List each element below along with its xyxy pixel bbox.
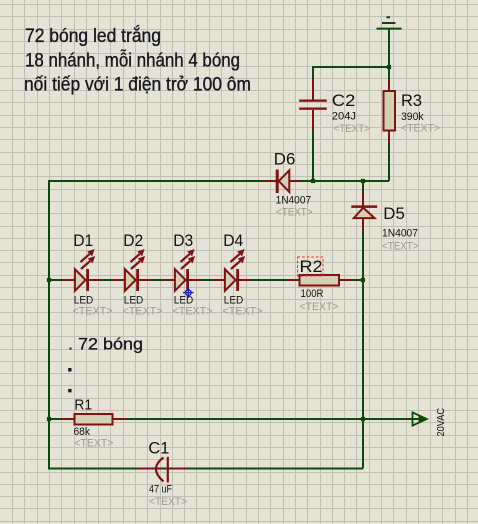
wire mid rail [49,180,389,182]
svg-text:R2: R2 [300,257,323,276]
LED D3 [163,231,213,318]
svg-text:204J: 204J [332,110,356,122]
junction C2 / mid rail [311,179,315,183]
capacitor C1 [138,439,189,509]
svg-text:<TEXT>: <TEXT> [123,306,163,318]
diode D5 [351,193,418,253]
annotation dot [68,389,71,393]
resistor R1 [61,397,127,450]
ground [377,17,402,28]
annotation text block [24,25,251,95]
svg-text:<TEXT>: <TEXT> [173,306,213,318]
junction left rail / R1 row [47,417,51,421]
svg-text:D5: D5 [383,204,405,223]
LED D1 [63,231,113,318]
terminal 20VAC [413,408,448,437]
wire C2 column [312,66,314,182]
annotation dot [68,368,71,372]
svg-text:<TEXT>: <TEXT> [149,496,187,508]
wire left rail [48,180,50,470]
svg-text:C2: C2 [332,91,356,110]
svg-text:<TEXT>: <TEXT> [300,301,339,313]
svg-text:D2: D2 [123,231,143,250]
wire R3 column [388,67,390,181]
diode D6 [264,150,313,219]
svg-text:18 nhánh, mỗi nhánh 4 bóng: 18 nhánh, mỗi nhánh 4 bóng [25,49,240,71]
svg-text:R3: R3 [401,91,422,110]
wire D5 column / right rail [362,181,364,469]
svg-text:nối tiếp với 1 điện trở 100 ôm: nối tiếp với 1 điện trở 100 ôm [24,74,251,95]
LED D2 [113,231,163,318]
wire LED row [49,279,363,281]
svg-text:D6: D6 [274,150,296,169]
svg-text:47 uF: 47 uF [149,484,172,496]
svg-text:390k: 390k [401,111,424,123]
svg-text:D3: D3 [173,231,193,250]
junction R2 right / right rail [361,278,365,282]
origin marker on D3 [183,287,194,298]
svg-text:<TEXT>: <TEXT> [73,306,113,318]
svg-text:D1: D1 [73,231,93,250]
svg-text:<TEXT>: <TEXT> [401,123,440,135]
svg-text:68k: 68k [74,426,91,438]
junction right rail / R1 row [361,417,365,421]
resistor R3 [384,80,441,145]
junction top rail / R3 [387,65,391,69]
svg-text:100R: 100R [301,288,324,300]
svg-text:1N4007: 1N4007 [276,195,312,207]
svg-text:<TEXT>: <TEXT> [382,241,419,253]
svg-text:D4: D4 [223,231,243,250]
svg-text:C1: C1 [148,439,169,458]
svg-text:<TEXT>: <TEXT> [74,438,113,450]
svg-text:. 72 bóng: . 72 bóng [68,334,143,353]
svg-text:<TEXT>: <TEXT> [334,123,371,135]
wire top rail [313,66,389,68]
svg-text:<TEXT>: <TEXT> [223,306,263,318]
LED D4 [213,231,263,318]
svg-text:R1: R1 [74,397,92,414]
svg-text:72 bóng led trắng: 72 bóng led trắng [25,25,161,47]
svg-text:20VAC: 20VAC [435,408,447,437]
svg-text:<TEXT>: <TEXT> [276,207,313,219]
svg-text:1N4007: 1N4007 [382,228,418,240]
wire bottom rail [49,468,363,470]
wire ground stem [388,30,390,68]
junction left rail / LED row [47,278,51,282]
junction D5 / mid rail [361,179,365,183]
wire R1 row [49,418,421,420]
capacitor C2 [299,80,370,136]
resistor R2 [287,257,352,313]
